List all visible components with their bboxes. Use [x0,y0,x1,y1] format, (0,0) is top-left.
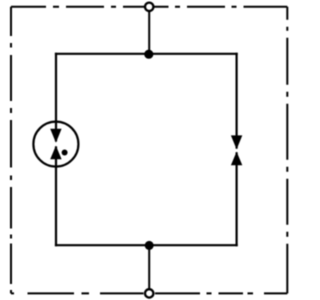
spark gap F2 lower electrode arrowhead [231,152,242,166]
surge arrester F1 envelope (gas discharge tube circle) [33,122,78,167]
wire bottom bus (node B) [55,244,238,246]
enclosure boundary bottom edge (dash-dot) [11,292,287,294]
terminal X1 (top open circle) [145,3,153,11]
terminal X2 (bottom open circle) [145,289,153,297]
F1 gas-filled indicator dot [62,150,68,156]
enclosure boundary right edge (dash-dot) [286,7,288,294]
wire right branch upper segment [236,53,238,149]
junction top node [144,50,153,59]
wire left branch upper segment [55,53,57,142]
junction bottom node [145,241,154,250]
spark gap F2 upper electrode arrowhead [231,135,242,149]
wire top terminal lead [148,8,150,54]
wire bottom terminal lead [148,245,150,292]
enclosure boundary top edge (dash-dot) [11,6,287,8]
wire right branch lower segment [236,152,238,246]
F1 lower electrode arrowhead [50,146,61,160]
wire top bus (node A) [55,53,238,55]
enclosure boundary left edge (dash-dot) [10,7,12,294]
F1 upper electrode arrowhead [50,129,61,143]
wire left branch lower segment [55,146,57,246]
